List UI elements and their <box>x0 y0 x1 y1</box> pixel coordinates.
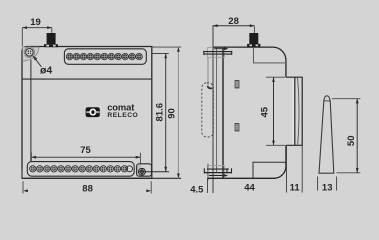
dimension 50 <box>332 98 360 100</box>
svg-text:ø4: ø4 <box>40 65 52 77</box>
right screw box <box>137 164 142 176</box>
svg-text:88: 88 <box>82 183 93 194</box>
top terminal strip <box>64 49 146 65</box>
corner mounting tab (gray) <box>23 47 39 61</box>
svg-text:RELECO: RELECO <box>107 112 138 119</box>
inner left vertical seam <box>30 60 32 162</box>
clip release arrow bottom <box>224 174 229 177</box>
81.6 bottom extension through screw center <box>146 171 170 173</box>
svg-text:44: 44 <box>244 182 255 193</box>
ø4 screw ring <box>24 47 34 57</box>
dimension 81.6 <box>152 53 169 55</box>
dimension 45 <box>266 76 285 78</box>
vent slot 2 <box>235 124 239 131</box>
top terminal screws x11 <box>66 53 142 60</box>
terminal recess step <box>253 162 286 178</box>
dimension 19 <box>22 28 52 47</box>
svg-text:11: 11 <box>290 182 301 193</box>
bottom terminal strip <box>27 162 134 177</box>
dimension 28 <box>253 26 255 33</box>
housing seam <box>253 47 284 63</box>
svg-text:45: 45 <box>260 106 271 117</box>
antenna cap line <box>324 100 330 102</box>
svg-text:28: 28 <box>228 16 239 27</box>
svg-text:81.6: 81.6 <box>154 103 165 122</box>
dimension 13 <box>317 177 319 191</box>
dimension 11 <box>301 145 303 192</box>
antenna connector (front view) <box>47 33 56 44</box>
front panel waist line <box>22 78 152 80</box>
antenna body <box>319 96 334 173</box>
dimension 75 <box>31 153 140 164</box>
svg-text:comat: comat <box>107 101 134 112</box>
bottom terminal screws x14 <box>30 166 128 172</box>
bottom clip vertical <box>207 164 209 181</box>
top clip plate (gray) <box>207 48 224 58</box>
svg-text:90: 90 <box>167 108 178 119</box>
right box screw ⊕ <box>139 168 146 175</box>
module body outline (front view) <box>22 47 152 179</box>
dimension 88 <box>22 181 24 193</box>
dimension 44 <box>286 145 288 192</box>
ø4 screw slot <box>27 50 31 54</box>
top clip hook <box>208 86 213 88</box>
rear inner line <box>216 48 218 174</box>
module outline (side view) <box>208 47 286 178</box>
hidden DIN rail (dashed) <box>202 83 214 137</box>
top clip flange <box>204 51 232 55</box>
clip release arrow top <box>214 48 224 50</box>
dimension 90 <box>152 46 181 48</box>
ø4 leader arrow <box>34 57 42 67</box>
top clip slider <box>207 57 209 86</box>
socket panel <box>292 77 295 145</box>
svg-text:50: 50 <box>346 136 357 147</box>
svg-text:13: 13 <box>322 182 333 193</box>
bottom clip flange <box>204 168 231 175</box>
bottom clip plate (gray) <box>207 165 224 175</box>
svg-text:75: 75 <box>80 145 91 156</box>
rear face of module <box>222 47 224 178</box>
bottom edge + 90 bottom extension <box>22 177 181 179</box>
vent slot 1 <box>235 81 239 88</box>
svg-text:19: 19 <box>30 17 41 28</box>
comat RELECO logo icon <box>86 107 100 117</box>
svg-text:4.5: 4.5 <box>190 185 204 196</box>
rear mounting line <box>212 26 214 193</box>
dimension 4.5 <box>207 178 209 194</box>
open terminal circle <box>127 166 133 172</box>
antenna connector (side view) <box>249 33 258 44</box>
